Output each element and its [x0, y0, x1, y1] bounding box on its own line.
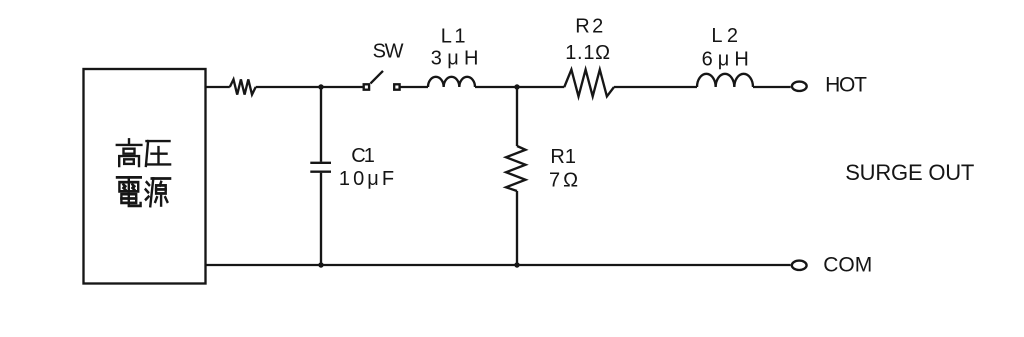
- kanji 源 (line2 char2): [146, 179, 170, 207]
- svg-text:R2: R2: [575, 16, 606, 38]
- terminal HOT: [792, 82, 807, 91]
- switch SW right terminal: [394, 84, 399, 89]
- wire: switch to L1: [401, 86, 429, 88]
- capacitor C1 top plate: [310, 162, 331, 164]
- svg-text:L2: L2: [711, 25, 742, 47]
- resistor R1 bottom lead: [516, 191, 518, 265]
- wire: resistor to switch: [256, 86, 363, 88]
- svg-text:L1: L1: [441, 25, 468, 47]
- resistor R2: [564, 70, 614, 97]
- resistor R1 top lead: [516, 87, 518, 146]
- node: C1 bottom junction: [318, 262, 323, 267]
- capacitor C1 bottom plate: [310, 171, 331, 173]
- wire: L2 to HOT terminal: [753, 86, 791, 88]
- svg-text:C1: C1: [351, 145, 375, 167]
- svg-text:COM: COM: [823, 254, 872, 277]
- kanji 電 (line2 char1): [117, 177, 141, 206]
- kanji 高 (line1 char1): [117, 139, 142, 166]
- kanji 圧 (line1 char2): [146, 141, 170, 166]
- wire: L1 to R2: [475, 86, 564, 88]
- terminal COM: [792, 261, 807, 270]
- switch SW blade: [371, 71, 384, 84]
- inductor L2: [697, 74, 753, 87]
- capacitor C1 top lead: [320, 87, 322, 162]
- svg-text:R1: R1: [550, 146, 576, 168]
- inductor L1: [428, 77, 475, 87]
- bottom rail wire (COM): [206, 264, 791, 266]
- capacitor C1 bottom lead: [320, 173, 322, 265]
- resistor R1: [506, 146, 526, 191]
- svg-text:1.1Ω: 1.1Ω: [565, 42, 611, 64]
- resistor (unlabeled, box output): [230, 79, 256, 94]
- svg-text:SW: SW: [373, 40, 404, 62]
- node: R1 bottom junction: [514, 262, 519, 267]
- switch SW left terminal: [364, 84, 369, 89]
- svg-text:6μH: 6μH: [702, 48, 754, 70]
- svg-text:3μH: 3μH: [431, 48, 484, 70]
- svg-text:7Ω: 7Ω: [549, 170, 581, 192]
- wire: box to input resistor (top rail): [206, 86, 230, 88]
- svg-text:HOT: HOT: [825, 73, 867, 96]
- node: R1 top junction: [514, 84, 519, 89]
- node: C1 top junction: [318, 84, 323, 89]
- svg-text:SURGE OUT: SURGE OUT: [845, 160, 974, 185]
- power supply box (高圧電源): [84, 69, 206, 284]
- svg-text:10μF: 10μF: [339, 168, 397, 190]
- wire: R2 to L2: [614, 86, 697, 88]
